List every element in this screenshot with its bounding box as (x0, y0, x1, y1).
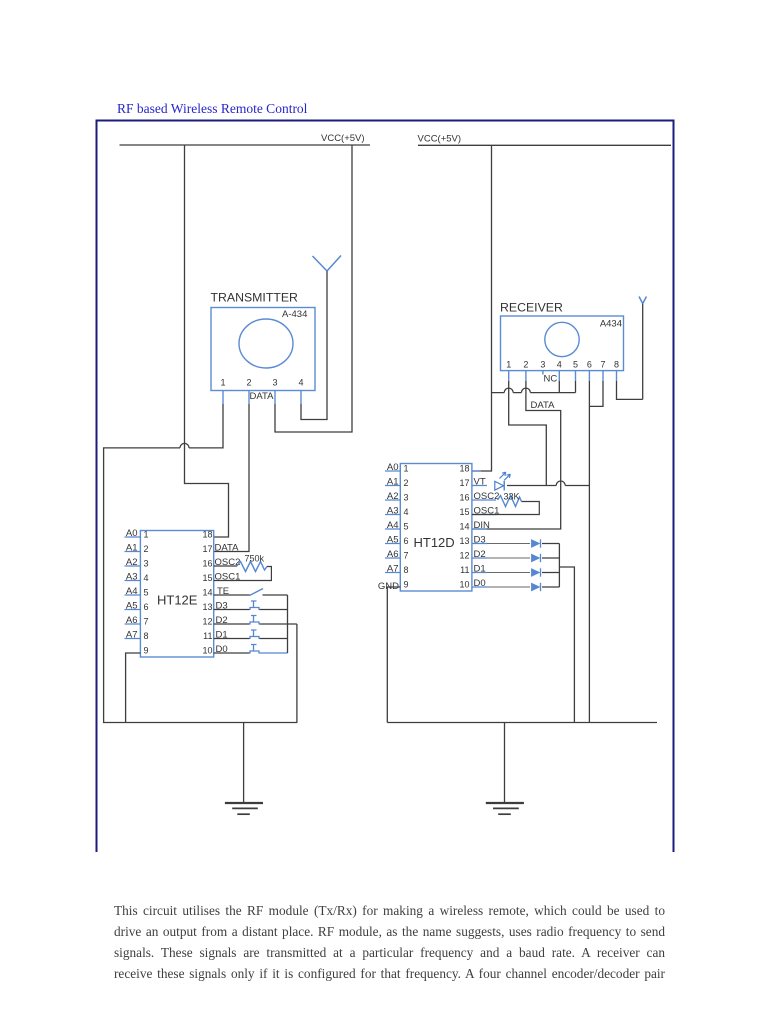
wire D2 extension to ground rail (296, 624, 298, 723)
wire receiver pin6 to ground rail (588, 381, 590, 723)
svg-text:A6: A6 (126, 615, 138, 626)
svg-text:A0: A0 (387, 462, 399, 473)
wire hop over receiver pin1 (504, 388, 513, 393)
pin numbers receiver 1-8 (506, 360, 619, 370)
svg-text:16: 16 (202, 559, 212, 569)
wire receiver pin1 to VT net (509, 381, 547, 486)
svg-text:DATA: DATA (215, 543, 240, 554)
svg-text:A5: A5 (126, 601, 138, 612)
HT12E pin labels A0-A7 (126, 528, 138, 641)
HT12D right pin labels (474, 477, 500, 590)
wire receiver pin7 to pin6 (589, 381, 603, 406)
wire receiver pin8 to antenna (617, 381, 643, 399)
switch S5 on D0 pin10 (214, 645, 288, 654)
svg-text:13: 13 (459, 536, 469, 546)
svg-text:8: 8 (614, 360, 619, 370)
svg-text:A4: A4 (387, 520, 399, 531)
svg-text:2: 2 (246, 378, 251, 388)
antenna transmitter (313, 256, 342, 420)
svg-text:A2: A2 (126, 557, 138, 568)
switch S2 on D3 pin13 (214, 601, 288, 610)
IC U2 HT12D (400, 464, 472, 592)
resistor 33K between OSC2 and OSC1 (472, 496, 539, 515)
svg-text:11: 11 (203, 631, 212, 641)
svg-text:TRANSMITTER: TRANSMITTER (211, 291, 299, 305)
svg-text:1: 1 (404, 464, 409, 474)
svg-text:8: 8 (144, 631, 149, 641)
svg-text:11: 11 (460, 565, 469, 575)
wire VCC drop to HT12E pin18 (185, 145, 229, 537)
node DATA label transmitter (250, 391, 275, 402)
node NC label (544, 374, 558, 385)
svg-text:NC: NC (544, 374, 558, 385)
label RECEIVER (500, 301, 563, 315)
LED VT indicator (495, 472, 511, 490)
wire VT net to receiver pin6 (507, 485, 589, 487)
wire transmitter pin1 to ground net (104, 404, 223, 723)
svg-text:6: 6 (144, 602, 149, 612)
wire LED cathode bus (558, 544, 560, 588)
HT12D pin numbers right 18-10 (459, 464, 469, 590)
svg-text:5: 5 (573, 360, 578, 370)
svg-text:18: 18 (459, 464, 469, 474)
label A-434 (282, 309, 307, 320)
HT12D right pin stubs (472, 471, 496, 587)
IC U1 HT12E (140, 531, 213, 658)
HT12E right pin labels (215, 543, 241, 656)
svg-text:4: 4 (144, 573, 149, 583)
svg-text:A-434: A-434 (282, 309, 307, 320)
resistor 750k between OSC2 and OSC1 (214, 562, 272, 581)
receiver module A434 (501, 316, 624, 381)
svg-text:1: 1 (144, 530, 149, 540)
svg-text:750k: 750k (245, 554, 265, 564)
svg-text:14: 14 (459, 522, 469, 532)
wire HT12E pin9 to ground rail (126, 653, 141, 723)
svg-text:4: 4 (404, 507, 409, 517)
svg-text:RECEIVER: RECEIVER (500, 301, 563, 315)
svg-text:4: 4 (298, 378, 303, 388)
label A434 (600, 319, 622, 330)
wire hop over receiver pin2 (521, 388, 530, 393)
svg-text:A4: A4 (126, 586, 138, 597)
svg-text:7: 7 (600, 360, 605, 370)
svg-text:4: 4 (557, 360, 562, 370)
wire VCC rail receiver (418, 144, 671, 146)
svg-text:A1: A1 (126, 543, 138, 554)
svg-text:A7: A7 (126, 630, 138, 641)
svg-text:14: 14 (202, 588, 212, 598)
wire receiver pin2 DATA to HT12D DIN (472, 381, 561, 529)
label TRANSMITTER (211, 291, 299, 305)
svg-text:8: 8 (404, 565, 409, 575)
svg-text:15: 15 (202, 573, 212, 583)
HT12D pin numbers left 1-9 (404, 464, 409, 590)
ground symbol receiver (486, 723, 524, 815)
svg-text:VCC(+5V): VCC(+5V) (321, 133, 365, 144)
svg-text:VCC(+5V): VCC(+5V) (418, 133, 462, 144)
svg-text:33K: 33K (504, 492, 520, 502)
svg-text:HT12D: HT12D (414, 535, 455, 550)
LED D2 on HT12D D2 (487, 554, 559, 562)
svg-text:7: 7 (144, 617, 149, 627)
svg-text:2: 2 (144, 544, 149, 554)
LED D1 on HT12D D3 (487, 539, 559, 547)
svg-text:A3: A3 (126, 572, 138, 583)
antenna receiver (639, 297, 647, 400)
svg-text:3: 3 (144, 559, 149, 569)
svg-text:5: 5 (404, 522, 409, 532)
wire HT12D pin9 GND to ground rail (387, 587, 400, 723)
svg-text:A1: A1 (387, 477, 399, 488)
svg-text:7: 7 (404, 551, 409, 561)
wire ground rail transmitter (103, 722, 297, 724)
wire hop over DATA vertical (556, 481, 565, 485)
svg-text:3: 3 (272, 378, 277, 388)
svg-text:12: 12 (202, 617, 212, 627)
HT12E pin numbers left 1-9 (144, 530, 149, 656)
svg-text:A434: A434 (600, 319, 622, 330)
LED D4 on HT12D D0 (487, 583, 559, 591)
HT12E left pin stubs A0-A7 (125, 537, 141, 639)
svg-text:12: 12 (459, 551, 469, 561)
svg-text:A0: A0 (126, 528, 138, 539)
svg-text:13: 13 (202, 602, 212, 612)
svg-text:6: 6 (587, 360, 592, 370)
svg-text:A6: A6 (387, 549, 399, 560)
svg-text:5: 5 (144, 588, 149, 598)
svg-text:DATA: DATA (250, 391, 275, 402)
svg-text:A2: A2 (387, 491, 399, 502)
schematic frame border (97, 121, 674, 853)
wire hop over VCC drop (180, 443, 189, 448)
switch S4 on D1 pin11 (214, 630, 288, 639)
HT12E pin numbers right 18-10 (202, 530, 212, 656)
wire VCC drop to transmitter pin3 (275, 145, 352, 432)
svg-text:1: 1 (506, 360, 511, 370)
svg-text:HT12E: HT12E (157, 593, 198, 608)
wire transmitter pin2 DATA to HT12E pin17 (214, 404, 249, 552)
wire VCC drop to HT12D pin18 (472, 145, 492, 471)
svg-text:18: 18 (202, 530, 212, 540)
svg-text:A7: A7 (387, 564, 399, 575)
svg-text:6: 6 (404, 536, 409, 546)
svg-text:1: 1 (220, 378, 225, 388)
svg-text:A5: A5 (387, 535, 399, 546)
switch S1 on TE pin14 (214, 589, 288, 596)
node VCC(+5V) label transmitter (321, 133, 365, 144)
HT12D left pin stubs A0-A7 (385, 471, 400, 573)
pin numbers transmitter 1 2 3 4 (220, 378, 303, 388)
svg-text:3: 3 (404, 493, 409, 503)
svg-text:10: 10 (202, 646, 212, 656)
ground symbol transmitter (225, 723, 263, 815)
svg-text:2: 2 (523, 360, 528, 370)
svg-text:17: 17 (202, 544, 212, 554)
svg-text:2: 2 (404, 478, 409, 488)
transmitter module A-434 (211, 308, 315, 405)
svg-text:DATA: DATA (531, 400, 556, 411)
switch S3 on D2 pin12 (214, 616, 297, 625)
label 750k (245, 554, 265, 564)
svg-text:17: 17 (459, 478, 469, 488)
HT12D pin labels A0-A7 GND (378, 462, 399, 592)
svg-text:9: 9 (144, 646, 149, 656)
svg-text:16: 16 (459, 493, 469, 503)
svg-text:9: 9 (404, 580, 409, 590)
wire ground rail receiver (387, 722, 657, 724)
label 33K (504, 492, 520, 502)
svg-text:10: 10 (459, 580, 469, 590)
node VCC(+5V) label receiver (418, 133, 462, 144)
svg-text:3: 3 (540, 360, 545, 370)
wire transmitter pin4 to antenna (301, 404, 328, 420)
svg-text:15: 15 (459, 507, 469, 517)
LED D3 on HT12D D1 (487, 568, 559, 576)
wire receiver VCC feed pins 4 and 5 (492, 381, 576, 393)
wire VCC rail transmitter (120, 144, 371, 146)
svg-text:A3: A3 (387, 506, 399, 517)
wire switch bus to ground (287, 595, 289, 653)
node DATA label receiver (531, 400, 556, 411)
wire LED bus to ground rail (559, 567, 574, 723)
